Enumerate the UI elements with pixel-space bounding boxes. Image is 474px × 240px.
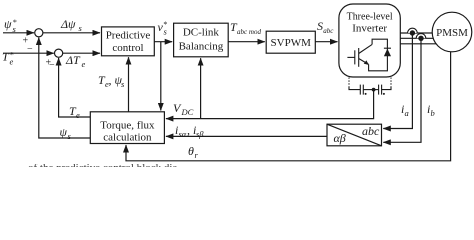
svg-text:Predictive: Predictive: [106, 30, 151, 42]
svg-text:abc: abc: [362, 124, 380, 138]
svg-text:ΔT: ΔT: [65, 53, 81, 67]
svg-text:abc mod: abc mod: [237, 27, 261, 36]
svg-text:θ: θ: [188, 144, 194, 158]
svg-text:sα: sα: [179, 129, 187, 139]
svg-text:Δψ: Δψ: [60, 17, 76, 31]
svg-text:s: s: [68, 131, 72, 141]
svg-text:calculation: calculation: [103, 132, 152, 144]
svg-text:S: S: [317, 19, 323, 33]
svg-text:ψ: ψ: [60, 125, 68, 139]
svg-text:Inverter: Inverter: [352, 23, 387, 35]
svg-text:, i: , i: [187, 123, 196, 137]
svg-text:e: e: [82, 59, 86, 69]
svg-text:Three-level: Three-level: [347, 11, 393, 23]
svg-text:sβ: sβ: [196, 129, 204, 139]
svg-text:SVPWM: SVPWM: [271, 37, 312, 49]
svg-text:e: e: [10, 57, 14, 67]
svg-text:−: −: [27, 44, 33, 55]
svg-text:r: r: [195, 150, 199, 160]
svg-text:a: a: [405, 108, 409, 118]
svg-text:abc: abc: [323, 27, 334, 35]
svg-text:control: control: [112, 42, 143, 54]
svg-text:b: b: [431, 108, 435, 118]
svg-text:s: s: [79, 23, 83, 33]
svg-text:e: e: [76, 110, 80, 120]
svg-text:αβ: αβ: [334, 131, 346, 145]
svg-text:PMSM: PMSM: [436, 27, 468, 39]
svg-text:Balancing: Balancing: [179, 41, 224, 53]
svg-text:ψ: ψ: [4, 17, 12, 31]
svg-text:DC: DC: [181, 107, 194, 117]
svg-text:Torque, flux: Torque, flux: [100, 120, 155, 132]
svg-text:DC-link: DC-link: [183, 27, 220, 39]
svg-text:−: −: [49, 60, 55, 71]
svg-text:s: s: [121, 79, 125, 89]
